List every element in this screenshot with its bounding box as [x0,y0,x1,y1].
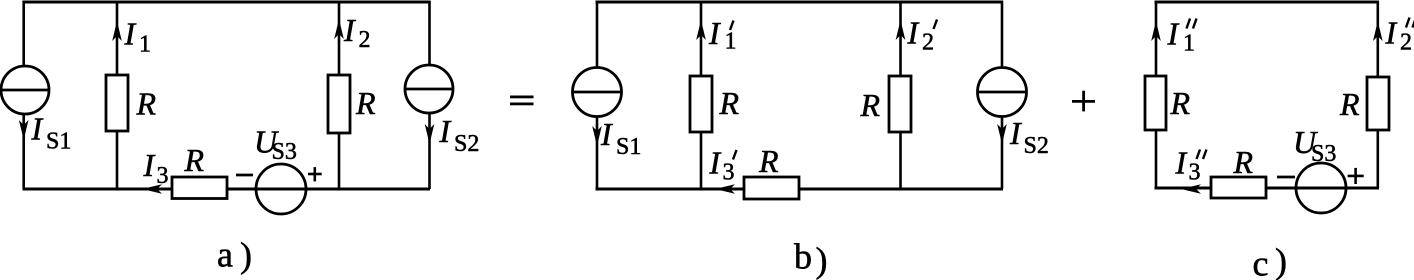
caption a) [217,234,252,275]
arrow: current I3' left, circuit b bottom [715,184,735,194]
svg-text:I: I [124,16,137,52]
wire: circuit b top rail [596,1,1004,4]
arrow: current I3 left, circuit a bottom [142,184,162,194]
svg-text:R: R [1233,144,1254,180]
svg-text:I: I [907,15,920,51]
svg-text:): ) [816,240,828,280]
label US3 circuit c [1293,124,1336,167]
wire: circuit b right rail [1001,1,1004,189]
svg-text:3: 3 [157,163,169,189]
wire: circuit a left rail [22,1,25,189]
svg-text:I: I [1385,15,1398,51]
svg-text:b: b [794,237,812,277]
wire: circuit b branch 1 (R, I1') [700,2,703,189]
svg-text:I: I [709,145,722,181]
svg-text:R: R [860,87,881,123]
svg-text:R: R [758,143,779,179]
wire: circuit b bottom rail [596,188,1004,191]
svg-text:I: I [439,113,452,149]
svg-text:R: R [184,142,205,178]
label IS1 circuit b [600,116,641,160]
svg-text:R: R [719,85,740,121]
arrow: current I2' up, circuit b branch 2 [896,20,906,40]
wire: circuit a branch 1 (R, I1) [116,2,119,189]
svg-text:S3: S3 [1311,141,1336,167]
svg-text:1: 1 [725,29,737,55]
label IS2 circuit a [439,113,480,157]
label R right branch circuit c [1339,86,1360,122]
resistor R branch 1 of circuit a [106,75,128,131]
label R branch 1 circuit b [719,85,740,121]
svg-text:S2: S2 [454,131,479,157]
svg-text:2: 2 [922,30,934,56]
svg-text:1: 1 [139,32,151,58]
svg-text:R: R [136,86,157,122]
label I3'' circuit c [1175,145,1207,186]
wire: circuit a branch 2 (R, I2) [338,2,341,189]
svg-text:I: I [1167,16,1180,52]
wire: circuit b branch 2 (R, I2') [899,2,902,189]
voltage source US3 of circuit a [256,164,306,214]
wire: circuit c right rail [1377,1,1380,188]
wire: circuit c left rail [1155,1,1158,188]
resistor R branch 2 of circuit a [328,75,350,133]
label R bottom circuit b [758,143,779,179]
current source IS2 of circuit a [405,65,453,113]
arrow: current I1' up, circuit b branch 1 [696,20,706,40]
label I2'' circuit c [1385,15,1414,56]
label I2' circuit b [907,15,938,56]
wire: circuit c top rail [1155,1,1380,4]
label I3' circuit b [709,145,737,186]
label R branch 1 circuit a [136,86,157,122]
label R bottom circuit a [184,142,205,178]
resistor R branch 2 of circuit b [889,76,911,132]
label IS2 circuit b [1009,115,1049,159]
wire: circuit c bottom rail [1155,187,1380,190]
svg-text:1: 1 [1183,31,1195,57]
arrow: IS2 source current down, circuit b [997,124,1007,144]
label R bottom circuit c [1233,144,1254,180]
current source IS1 of circuit a [1,66,49,114]
arrow: current I2 up, circuit a branch 2 [334,19,344,39]
svg-text:I: I [343,12,356,48]
resistor R bottom of circuit a [172,177,227,199]
label I1'' circuit c [1167,16,1197,57]
svg-text:S2: S2 [1024,133,1049,159]
resistor R bottom of circuit c [1211,177,1266,198]
arrow: current I1'' up, circuit c left branch [1151,21,1161,41]
svg-text:S1: S1 [616,134,641,160]
arrow: current I2'' up, circuit c right branch [1373,21,1383,41]
svg-text:I: I [1009,115,1022,151]
arrow: IS2 source current down, circuit a [425,124,435,144]
svg-text:R: R [1339,86,1360,122]
svg-text:3: 3 [1189,160,1201,186]
plus sign between circuit b and c [1072,91,1095,112]
current source IS2 of circuit b [978,68,1027,117]
svg-text:I: I [708,15,721,51]
svg-text:3: 3 [723,160,735,186]
svg-text:2: 2 [1400,30,1412,56]
svg-text:I: I [1175,145,1188,181]
equals sign between circuit a and b [510,96,534,106]
label I2 circuit a [343,12,371,53]
label IS1 circuit a [31,111,72,155]
label US3 circuit a [254,124,297,166]
svg-text:): ) [240,235,252,275]
resistor R bottom of circuit b [744,177,799,199]
polarity minus of US3 circuit a [236,174,253,177]
caption b) [794,237,828,280]
wire: circuit a top rail [23,1,431,4]
polarity minus of US3 circuit c [1277,176,1295,179]
svg-text:I: I [143,147,156,183]
arrow: IS1 source current down, circuit a [19,120,29,140]
label R left branch circuit c [1170,85,1191,121]
resistor R branch 1 of circuit b [690,76,712,132]
caption c) [1253,241,1288,280]
svg-text:R: R [355,85,376,121]
current source IS1 of circuit b [573,68,622,117]
svg-text:): ) [1275,241,1287,280]
svg-text:S1: S1 [46,129,71,155]
arrow: IS1 source current down, circuit b [592,126,602,146]
wire: circuit a right rail [428,1,431,189]
label I3 circuit a [143,147,169,189]
label I1 circuit a [124,16,152,58]
voltage source US3 of circuit c [1296,163,1346,213]
svg-text:I: I [600,116,613,152]
polarity plus of US3 circuit c [1348,168,1364,184]
arrow: current I1 up, circuit a branch 1 [112,21,122,41]
svg-text:2: 2 [359,27,371,53]
wire: circuit b left rail [596,1,599,189]
svg-text:c: c [1253,244,1269,280]
wire: circuit a bottom rail [23,188,431,191]
svg-text:R: R [1170,85,1191,121]
svg-text:I: I [31,111,44,147]
label I1' circuit b [708,15,737,55]
polarity plus of US3 circuit a [308,167,322,181]
svg-text:a: a [217,234,233,274]
arrow: current I3'' left, circuit c bottom [1181,184,1201,194]
label R branch 2 circuit a [355,85,376,121]
resistor R left branch of circuit c [1145,76,1166,130]
resistor R right branch of circuit c [1367,77,1389,130]
svg-text:S3: S3 [272,139,297,165]
label R branch 2 circuit b [860,87,881,123]
